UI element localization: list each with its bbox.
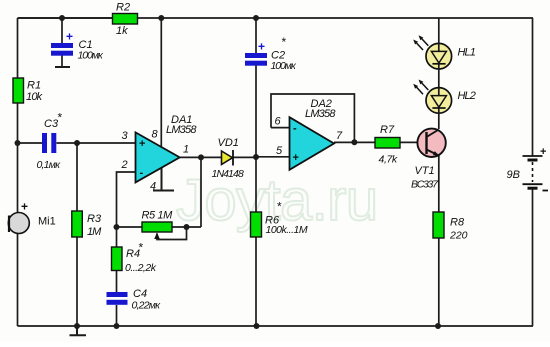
- resistor R6: [251, 200, 308, 238]
- svg-text:*: *: [277, 200, 282, 214]
- node top C2: [253, 15, 259, 21]
- wire C1 bottom lead: [61, 56, 63, 67]
- svg-text:+: +: [540, 146, 546, 158]
- node DA2 output / feedback: [351, 139, 357, 145]
- resistor R1: [13, 78, 43, 103]
- node top DA1 pin8: [158, 15, 164, 21]
- wire pin3 input (C3 line): [18, 142, 43, 144]
- capacitor C4: [107, 288, 162, 312]
- svg-text:*: *: [58, 111, 63, 125]
- wire right rail lower (battery to bottom): [532, 188, 534, 326]
- node bottom C4: [114, 323, 120, 329]
- node left rail / C3: [15, 140, 21, 146]
- svg-text:8: 8: [152, 129, 159, 141]
- svg-text:2: 2: [121, 159, 128, 171]
- svg-text:LM358: LM358: [305, 108, 336, 120]
- svg-text:100мк: 100мк: [271, 60, 297, 72]
- wire R4 to C4: [116, 271, 118, 293]
- svg-text:6: 6: [275, 116, 282, 128]
- svg-text:*: *: [282, 35, 287, 49]
- resistor R3: [72, 211, 102, 238]
- resistor R8: [433, 212, 468, 242]
- wire C1 top lead: [61, 18, 63, 43]
- node bottom R8: [435, 323, 441, 329]
- svg-text:-: -: [140, 167, 144, 179]
- resistor R7: [375, 124, 400, 166]
- wire R6 top: [255, 157, 257, 212]
- wire R3 bottom: [76, 237, 78, 326]
- svg-text:+: +: [21, 200, 28, 214]
- watermark Joyta.ru: [176, 168, 378, 233]
- wire DA1 out to VD1: [180, 156, 222, 158]
- svg-text:HL2: HL2: [458, 90, 476, 102]
- wire VT1 collector up to HL2: [438, 88, 440, 130]
- diode VD1: [212, 137, 244, 180]
- op-amp DA1: [121, 114, 198, 193]
- node top C1: [59, 15, 65, 21]
- svg-text:+: +: [258, 40, 265, 54]
- svg-text:R7: R7: [380, 124, 395, 136]
- wire bottom rail: [18, 325, 534, 327]
- node bottom R3: [74, 323, 80, 329]
- svg-text:VT1: VT1: [415, 165, 435, 177]
- wire R3 top: [76, 143, 78, 211]
- wire top rail: [18, 17, 534, 19]
- svg-text:Mi1: Mi1: [38, 216, 56, 228]
- LED HL1: [413, 35, 476, 69]
- microphone Mi1: [8, 200, 55, 234]
- svg-text:0...2,2k: 0...2,2k: [125, 262, 157, 274]
- wire R8 bottom: [438, 238, 440, 326]
- wire R5 left: [117, 226, 143, 228]
- wire R5 wiper loop: [157, 227, 187, 240]
- svg-text:4: 4: [150, 181, 156, 193]
- wire VD1 to node: [233, 156, 256, 158]
- wire DA1 pin8 drop: [160, 18, 162, 150]
- wire DA2 pin6 stub: [271, 127, 290, 129]
- svg-text:*: *: [139, 241, 144, 255]
- svg-text:+: +: [139, 138, 145, 150]
- svg-text:1N4148: 1N4148: [212, 168, 244, 180]
- node R5 left / R4: [114, 224, 120, 230]
- svg-text:0,22мк: 0,22мк: [132, 300, 162, 312]
- node C3 / R3 / pin3: [74, 140, 80, 146]
- wire node to DA2 pin5: [256, 156, 290, 158]
- svg-text:0,1мк: 0,1мк: [37, 159, 62, 171]
- svg-text:5: 5: [276, 145, 283, 157]
- resistor R4: [112, 241, 157, 275]
- wire left rail lower (mic to bottom): [17, 234, 19, 327]
- wire DA2 feedback loop: [271, 94, 354, 142]
- svg-text:LM358: LM358: [166, 124, 197, 136]
- svg-text:+: +: [66, 30, 73, 44]
- wire R6 bottom: [255, 237, 257, 326]
- wire C3 to DA1 pin3: [57, 142, 136, 144]
- wire HL1 to top rail: [438, 18, 440, 43]
- ground (DA1 pin4): [153, 168, 174, 191]
- ground (bottom rail): [70, 326, 87, 335]
- wire between HL1 and HL2: [438, 69, 440, 88]
- battery GB1 9V: [507, 146, 549, 191]
- potentiometer R5: [142, 210, 174, 240]
- svg-text:100мк: 100мк: [78, 50, 104, 62]
- wire DA2 output to R7: [334, 141, 375, 143]
- capacitor C2: [245, 35, 297, 72]
- wire DA1 pin2: [117, 172, 136, 247]
- svg-text:R1: R1: [27, 80, 41, 92]
- node bottom R6: [254, 323, 260, 329]
- svg-text:-: -: [293, 123, 297, 135]
- svg-text:1: 1: [183, 144, 189, 156]
- capacitor C3: [37, 111, 63, 172]
- wire R7 to VT1 base: [400, 141, 427, 143]
- svg-text:100k...1M: 100k...1M: [266, 224, 308, 236]
- svg-text:HL1: HL1: [458, 47, 476, 59]
- wire C4 bottom: [116, 305, 118, 326]
- wire C2 bottom lead to node: [255, 66, 257, 158]
- node R5 wiper: [184, 224, 190, 230]
- node VD1 / C2 / pin5: [253, 154, 259, 160]
- svg-text:VD1: VD1: [218, 137, 239, 149]
- svg-text:R2: R2: [116, 2, 130, 14]
- wire HL1 through circle: [438, 43, 440, 69]
- svg-text:220: 220: [449, 230, 468, 242]
- resistor R2: [113, 2, 138, 38]
- op-amp DA2: [275, 98, 344, 170]
- svg-text:7: 7: [336, 130, 343, 142]
- svg-text:1M: 1M: [87, 226, 102, 238]
- capacitor C1: [51, 30, 104, 62]
- wire DA1 output feedback drop: [200, 157, 202, 227]
- wire left rail mid (R1 to mic): [17, 103, 19, 213]
- wire C2 top lead: [255, 18, 257, 53]
- svg-text:1k: 1k: [116, 25, 128, 37]
- svg-text:4,7k: 4,7k: [379, 154, 398, 166]
- wire right rail upper (to battery): [532, 18, 534, 156]
- svg-text:10k: 10k: [26, 91, 43, 103]
- svg-text:3: 3: [122, 130, 129, 142]
- node DA1 output: [198, 154, 204, 160]
- svg-text:+: +: [293, 152, 299, 164]
- ground (C1 negative bar): [55, 66, 70, 68]
- wire R5 right to feedback drop: [172, 226, 201, 228]
- svg-text:BC337: BC337: [411, 179, 439, 191]
- wire left rail upper: [17, 18, 19, 78]
- wire R2 left: [18, 17, 113, 19]
- svg-text:R3: R3: [87, 213, 102, 225]
- wire VT1 emitter down to R8: [438, 156, 440, 213]
- svg-text:9В: 9В: [507, 169, 520, 181]
- transistor VT1: [411, 129, 446, 191]
- LED HL2: [413, 80, 476, 114]
- svg-text:R8: R8: [450, 217, 465, 229]
- wire HL2 through circle: [438, 88, 440, 114]
- svg-text:R5 1M: R5 1M: [142, 210, 174, 222]
- svg-text:C4: C4: [133, 288, 147, 300]
